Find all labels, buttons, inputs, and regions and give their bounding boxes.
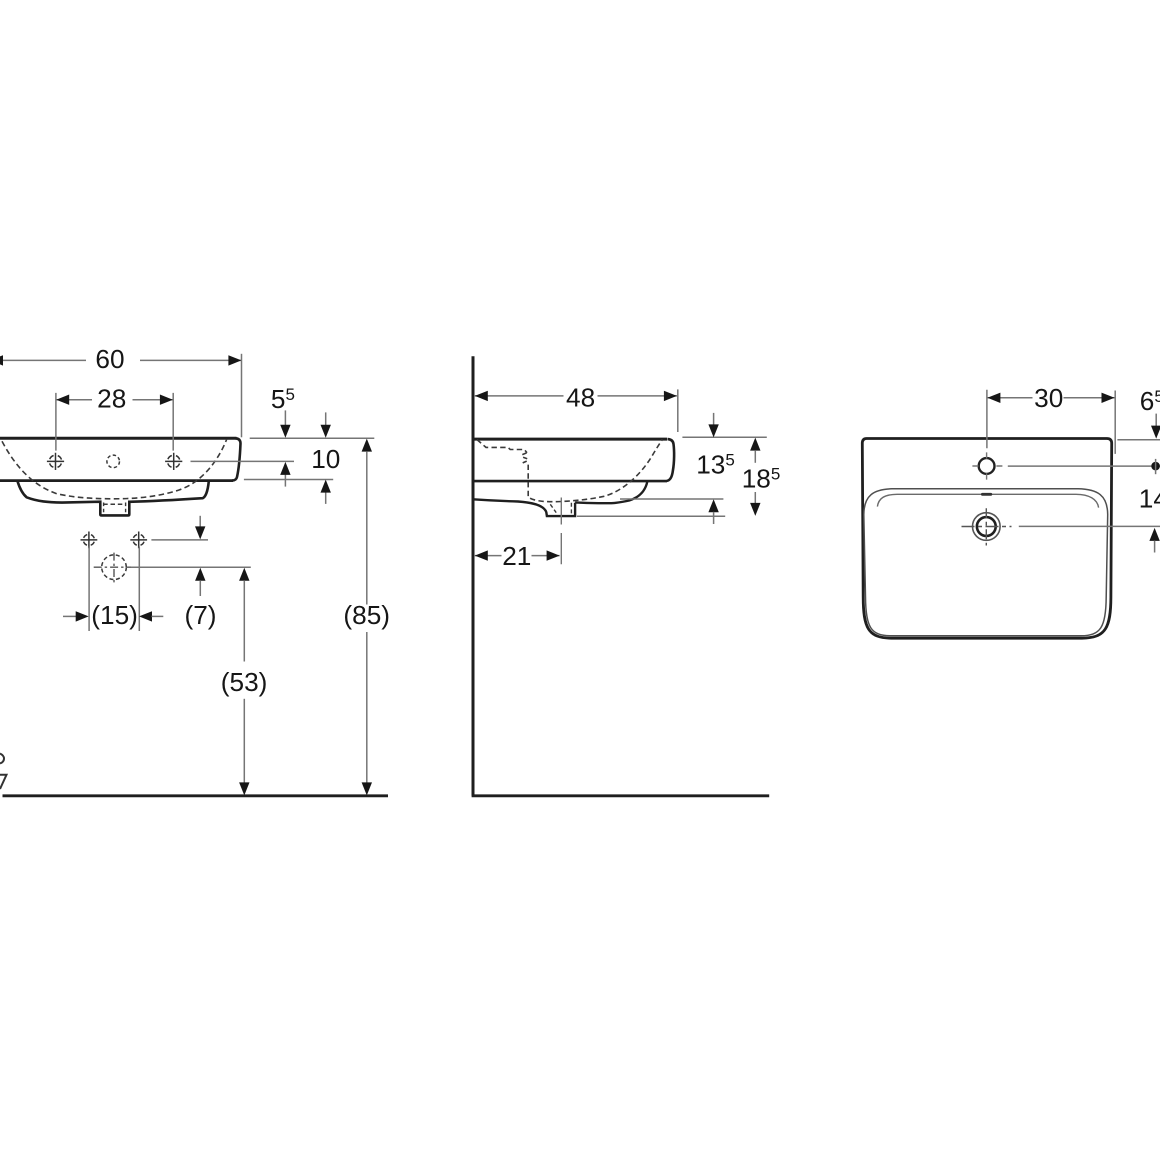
dimension 30 line [987, 397, 1114, 399]
siphon dashed circle (front view) [102, 555, 127, 580]
svg-text:10: 10 [311, 444, 340, 474]
drain inner circle (top view) [977, 517, 996, 536]
dimension 18.5 up arrow [750, 438, 760, 463]
svg-text:30: 30 [1034, 383, 1063, 413]
left faucet hole cross (front view) [47, 453, 64, 470]
dimension (15) left arrow with tail [63, 611, 89, 621]
inner profile vertical and bottom dashed (side view) [528, 440, 662, 502]
bowl outline below rim (front view) [17, 481, 208, 516]
dimension 21 left arrow [475, 550, 488, 560]
rim inner edge line (top view) [877, 494, 1098, 507]
dimension 21 line [475, 555, 560, 557]
svg-text:60: 60 [95, 344, 124, 374]
dimension (85) extension arrow up at rim level [362, 439, 372, 605]
FRONT VIEW GROUP [0, 344, 390, 796]
dimension 48 left arrow [475, 391, 488, 401]
basin rim bottom edge (front view) [0, 479, 233, 482]
floor line (side view) [472, 794, 770, 797]
outer outline (top view) [862, 439, 1111, 639]
dimension 6.5 down arrow [1151, 414, 1160, 439]
right fixing hole cross (front view) [130, 532, 147, 549]
faucet hole circle (top view) [979, 458, 995, 474]
dimension 28 line [56, 399, 173, 401]
drain center line (side view) [560, 498, 562, 565]
drain level leader line (top view) [1019, 525, 1160, 527]
dimension 28 extension lines down to faucet holes [56, 393, 173, 451]
svg-text:28: 28 [97, 384, 126, 414]
dimension 48 line [475, 395, 677, 397]
dimension (7) up arrow below siphon line [195, 568, 205, 596]
siphon level leader line [131, 566, 251, 568]
dimension 28 left arrow [56, 395, 69, 405]
dimension 60 line [0, 359, 241, 361]
svg-text:14: 14 [1139, 484, 1160, 514]
siphon centerline cross (front view) [94, 566, 131, 568]
dimension 28 right arrow [160, 395, 173, 405]
svg-text:(85): (85) [343, 600, 390, 630]
dimension 13.5 down arrow [708, 413, 718, 438]
dimension 10 up arrow [321, 480, 331, 504]
dimension 5.5 up arrow [280, 462, 290, 487]
overflow hole dashed circle (front view) [107, 455, 120, 468]
drain stub dashed details (side view) [570, 503, 572, 516]
dimension (7) down arrow above fixing hole line [195, 516, 205, 540]
inner bowl dashed curve (front view) [2, 439, 227, 499]
dimension 30 extension lines [987, 390, 1115, 454]
dimension 48 right arrow [664, 391, 677, 401]
faucet level leader line [191, 460, 295, 462]
dimension (15) right arrow with tail [139, 611, 163, 621]
svg-text:(15): (15) [91, 600, 138, 630]
basin rim right edge (front view) [232, 438, 241, 480]
SIDE VIEW GROUP [472, 356, 781, 796]
rim top reference line [250, 437, 375, 439]
rim bottom reference line [244, 479, 333, 481]
rim top edge (side view) [473, 438, 667, 441]
dimension 13.5 up arrow [708, 499, 718, 524]
floor line (front view) [3, 794, 389, 797]
faucet level leader line (top view) [1008, 465, 1160, 467]
partial logo fragment 7 (left edge) [0, 775, 7, 789]
TOP VIEW GROUP [862, 383, 1160, 638]
partial logo fragment top (left edge) [0, 754, 4, 764]
underside reference line (side view right) [620, 498, 723, 500]
left fixing hole cross (front view) [81, 532, 98, 549]
drain box dashed side marks (front view) [104, 503, 126, 514]
inner profile dashed (side view) [477, 440, 527, 453]
inner profile overflow jog dashes (side view) [522, 453, 527, 463]
dimension 5.5 down arrow [280, 410, 290, 437]
right faucet hole cross (front view) [165, 453, 182, 470]
dimension 30 left arrow [987, 393, 1000, 403]
dimension 60 right arrow [228, 355, 241, 365]
svg-text:21: 21 [502, 541, 531, 571]
dimension 60 extension line [241, 354, 243, 438]
drain outer circle (top view) [973, 513, 1001, 541]
basin rim top edge (front view) [0, 437, 237, 440]
fixing hole level leader line [151, 539, 208, 541]
svg-text:(53): (53) [221, 667, 268, 697]
dimension 18.5 down arrow [750, 492, 760, 516]
inner basin outline (top view) [864, 489, 1108, 636]
svg-text:(7): (7) [184, 600, 216, 630]
drain centerline cross (top view) [962, 526, 1012, 528]
dimension (53) up arrow below siphon line [239, 568, 249, 662]
rim bottom edge (side view) [473, 480, 667, 483]
svg-text:48: 48 [566, 382, 595, 412]
rim front face (side view) [667, 439, 674, 481]
dimension reference dot [1151, 462, 1160, 471]
overflow slot (top view) [981, 493, 992, 496]
rim top reference line (side view right) [682, 436, 766, 438]
dimension (15) extension lines [89, 547, 139, 632]
dimension 48 extension line [677, 389, 679, 432]
wall line (side view) [472, 356, 475, 796]
top edge reference line (top view right) [1117, 439, 1160, 441]
dimension 60 left arrow (clipped at edge) [0, 355, 3, 365]
dimension (53) lower line and floor arrow [239, 699, 249, 796]
dimension 30 right arrow [1102, 393, 1115, 403]
drain bottom reference line (side view right) [577, 515, 725, 517]
faucet hole center ticks (top view) [972, 465, 1002, 467]
drain box dashed inner line (front view) [103, 503, 126, 505]
basin underside with drain stub (side view) [473, 481, 647, 516]
dimension 21 right arrow [547, 550, 560, 560]
dimension 14 up arrow [1149, 528, 1159, 553]
dimension 10 down arrow [321, 412, 331, 437]
dimension (85) lower line and floor arrow [362, 632, 372, 795]
